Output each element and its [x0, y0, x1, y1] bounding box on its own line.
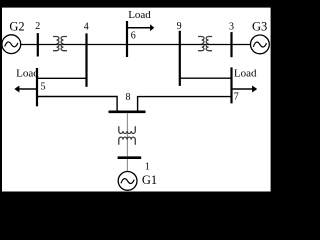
node bus 4 — [85, 33, 87, 86]
generator G2 — [2, 35, 21, 54]
svg-text:7: 7 — [234, 92, 239, 103]
svg-text:3: 3 — [229, 21, 234, 32]
wire: line 5-8 (horizontal then step down to bus 8) — [37, 97, 117, 112]
node bus 9 — [179, 31, 181, 86]
load arrow at bus 5 — [19, 88, 37, 90]
node bus 2 — [37, 33, 39, 56]
transformer T1 (bus8-bus1, vertical) — [119, 126, 136, 145]
wire: bus8 down through transformer to bus1 — [126, 113, 128, 156]
svg-text:1: 1 — [145, 162, 150, 173]
wire: line 4-5 — [37, 77, 87, 79]
transformer T3 (bus9-bus3) — [198, 37, 212, 51]
svg-text:G1: G1 — [142, 173, 157, 187]
svg-text:9: 9 — [177, 21, 182, 32]
node bus 1 (bus bar) — [118, 156, 142, 159]
transformer T2 (bus2-bus4) — [53, 37, 67, 51]
svg-text:Load: Load — [234, 67, 257, 79]
svg-text:5: 5 — [41, 81, 46, 92]
wire: line 9-7 — [180, 77, 232, 79]
node bus 6 — [126, 21, 128, 57]
wire: bus1 down to G1 — [126, 159, 128, 172]
svg-text:8: 8 — [126, 92, 131, 103]
generator G1 — [118, 172, 137, 191]
white drawing sheet — [2, 8, 271, 192]
wire: line 7-8 (horizontal then step down to bus 8) — [138, 97, 232, 112]
svg-text:2: 2 — [35, 21, 40, 32]
svg-text:G3: G3 — [252, 20, 267, 34]
svg-text:4: 4 — [84, 21, 89, 32]
generator G3 — [251, 35, 270, 54]
load arrow at bus 7 — [232, 88, 253, 90]
svg-text:Load: Load — [16, 68, 39, 80]
node bus 5 — [36, 68, 38, 106]
node bus 8 (bus bar) — [109, 111, 146, 114]
wire: main horizontal line bus4-bus6-bus9 (G2 to G3) — [20, 44, 250, 46]
node bus 3 — [230, 32, 232, 57]
load arrow at bus 6 — [127, 27, 151, 29]
node bus 7 — [230, 67, 232, 103]
svg-text:Load: Load — [128, 9, 151, 21]
svg-text:G2: G2 — [9, 19, 24, 33]
svg-text:6: 6 — [131, 31, 136, 42]
